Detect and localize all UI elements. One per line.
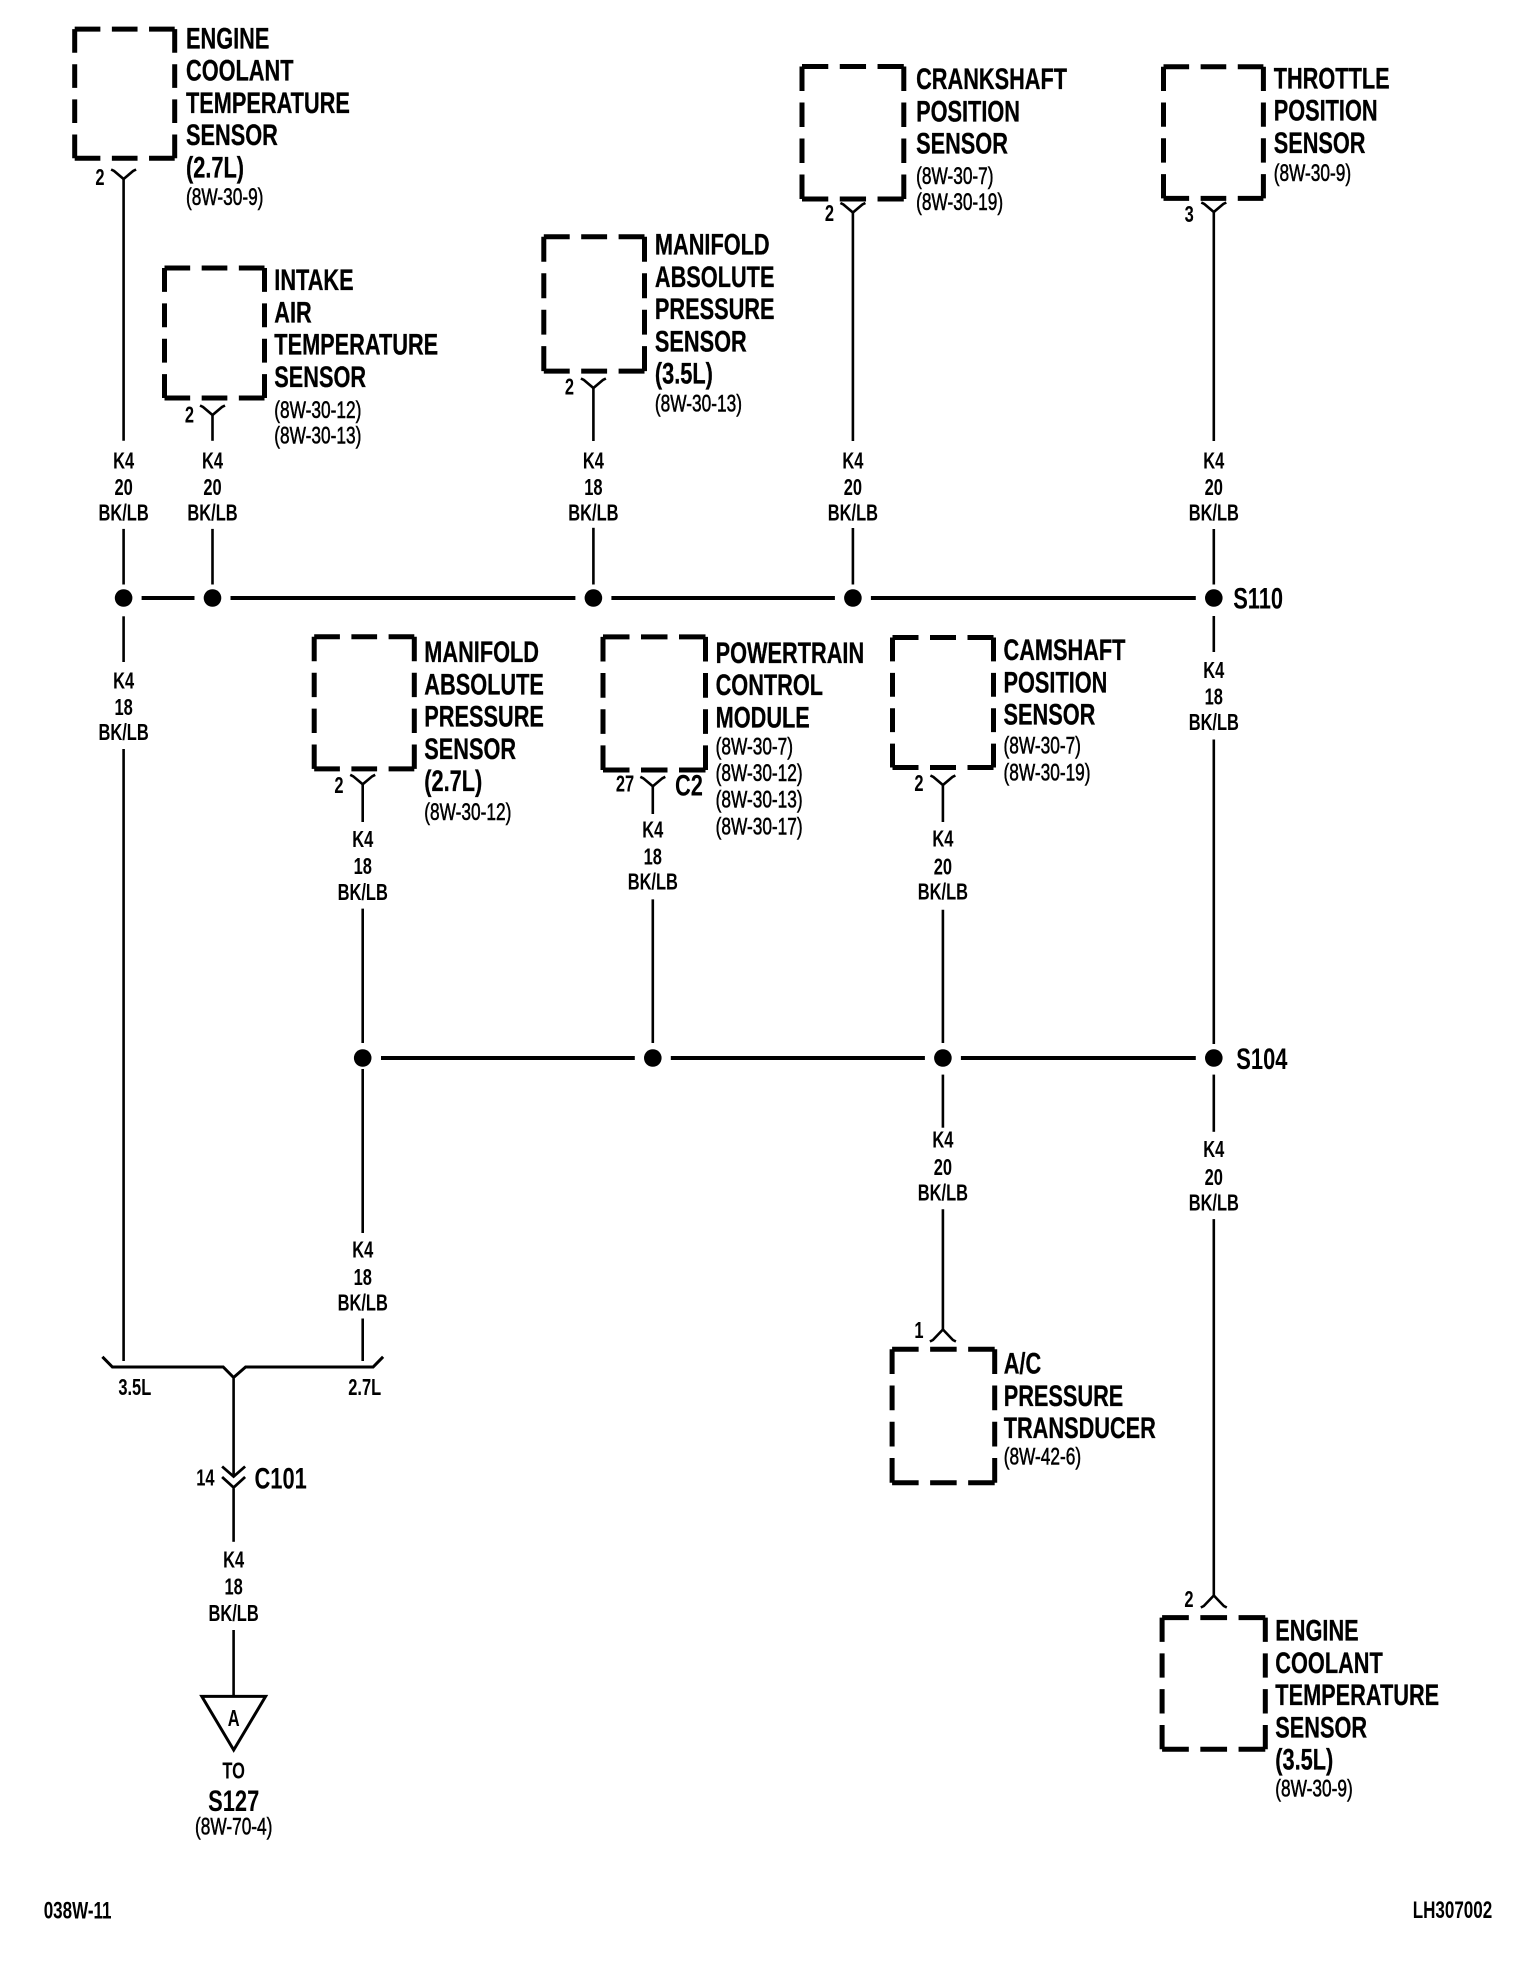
svg-text:18: 18 — [114, 695, 132, 720]
wire K4 18 BK/LB from MAP(3.5L) pin 2 down to splice S110 — [568, 388, 618, 585]
svg-text:PRESSURE: PRESSURE — [424, 699, 544, 733]
svg-text:K4: K4 — [1203, 449, 1225, 474]
svg-text:K4: K4 — [113, 449, 135, 474]
sensor box U10: ENGINE COOLANT TEMPERATURE SENSOR (3.5L) — [1162, 1613, 1439, 1802]
wire K4 20 BK/LB from TPS pin 3 down to splice S110 — [1189, 212, 1239, 585]
svg-text:COOLANT: COOLANT — [1275, 1645, 1382, 1679]
svg-text:SENSOR: SENSOR — [186, 118, 278, 152]
svg-text:K4: K4 — [113, 669, 135, 694]
svg-text:SENSOR: SENSOR — [274, 359, 366, 393]
svg-text:C2: C2 — [675, 768, 703, 802]
svg-text:3.5L: 3.5L — [118, 1375, 151, 1400]
junction dot S104/PCM wire — [644, 1049, 662, 1067]
svg-text:(8W-30-9): (8W-30-9) — [186, 185, 263, 211]
sensor box U2: INTAKE AIR TEMPERATURE SENSOR — [165, 263, 439, 450]
svg-text:BK/LB: BK/LB — [918, 1181, 968, 1206]
svg-text:POSITION: POSITION — [1004, 665, 1108, 699]
svg-text:18: 18 — [584, 475, 602, 500]
svg-text:LH307002: LH307002 — [1413, 1897, 1493, 1924]
node label S104 — [1236, 1042, 1287, 1076]
svg-text:TEMPERATURE: TEMPERATURE — [1275, 1678, 1439, 1712]
svg-text:SENSOR: SENSOR — [916, 126, 1008, 160]
svg-text:BK/LB: BK/LB — [98, 501, 148, 526]
svg-text:2: 2 — [914, 771, 923, 796]
svg-text:2: 2 — [185, 403, 194, 428]
svg-text:K4: K4 — [223, 1548, 245, 1573]
wire from brace apex down to connector C101 — [232, 1379, 235, 1475]
svg-text:BK/LB: BK/LB — [628, 870, 678, 895]
svg-text:C101: C101 — [255, 1461, 307, 1495]
wire K4 20 BK/LB from CMP pin 2 down to splice S104 — [918, 785, 968, 1043]
svg-text:(8W-30-12): (8W-30-12) — [424, 799, 511, 825]
svg-text:A: A — [228, 1706, 240, 1731]
svg-text:(8W-30-7): (8W-30-7) — [916, 163, 993, 189]
svg-text:SENSOR: SENSOR — [1274, 125, 1366, 159]
svg-text:BK/LB: BK/LB — [828, 501, 878, 526]
pin 27 connector C2 of PCM — [616, 768, 703, 802]
svg-text:(8W-30-12): (8W-30-12) — [716, 760, 803, 786]
pin 2 connector of ECT(3.5L) — [1184, 1587, 1226, 1612]
svg-text:27: 27 — [616, 772, 634, 797]
svg-text:SENSOR: SENSOR — [1275, 1710, 1367, 1744]
sensor box U5: THROTTLE POSITION SENSOR — [1164, 61, 1390, 199]
svg-text:S127: S127 — [208, 1784, 259, 1818]
svg-text:(8W-70-4): (8W-70-4) — [195, 1814, 272, 1840]
junction dot S104/MAP(2.7L) wire — [354, 1049, 372, 1067]
svg-text:AIR: AIR — [274, 295, 312, 329]
sensor box U3: MANIFOLD ABSOLUTE PRESSURE SENSOR (3.5L) — [544, 227, 775, 417]
svg-text:3: 3 — [1185, 202, 1194, 227]
svg-text:K4: K4 — [932, 1128, 954, 1153]
svg-text:SENSOR: SENSOR — [655, 324, 747, 358]
svg-text:TO: TO — [222, 1759, 245, 1784]
svg-text:MANIFOLD: MANIFOLD — [424, 635, 539, 669]
svg-text:ABSOLUTE: ABSOLUTE — [655, 259, 775, 293]
junction dot S104/CMP wire — [934, 1049, 952, 1067]
svg-text:20: 20 — [203, 475, 221, 500]
splice bus S110 (horizontal) — [142, 596, 1196, 600]
svg-text:K4: K4 — [352, 1238, 374, 1263]
svg-text:PRESSURE: PRESSURE — [1004, 1378, 1124, 1412]
node label S110 — [1233, 581, 1283, 615]
junction dot S110 right end — [1205, 589, 1223, 607]
svg-text:BK/LB: BK/LB — [338, 1291, 388, 1316]
svg-text:20: 20 — [114, 475, 132, 500]
svg-text:(8W-30-19): (8W-30-19) — [916, 189, 1003, 215]
svg-text:S110: S110 — [1233, 581, 1283, 615]
svg-text:BK/LB: BK/LB — [208, 1601, 258, 1626]
svg-text:(8W-30-9): (8W-30-9) — [1274, 160, 1351, 186]
svg-text:(8W-30-13): (8W-30-13) — [716, 787, 803, 813]
svg-text:COOLANT: COOLANT — [186, 53, 293, 87]
module box U7: POWERTRAIN CONTROL MODULE — [603, 635, 864, 840]
connector C101 pin 14 (inline double-chevron) — [196, 1461, 307, 1495]
svg-text:BK/LB: BK/LB — [1189, 1191, 1239, 1216]
svg-text:20: 20 — [1205, 475, 1223, 500]
sheet number 038W-11 — [44, 1898, 112, 1925]
svg-text:K4: K4 — [1203, 1138, 1225, 1163]
svg-text:POSITION: POSITION — [1274, 93, 1378, 127]
svg-text:18: 18 — [224, 1575, 242, 1600]
svg-text:TRANSDUCER: TRANSDUCER — [1004, 1411, 1156, 1445]
svg-text:18: 18 — [354, 1265, 372, 1290]
svg-text:CONTROL: CONTROL — [716, 668, 823, 702]
svg-text:SENSOR: SENSOR — [1004, 697, 1096, 731]
pin 2 connector of CMP — [914, 771, 955, 796]
wire K4 18 BK/LB from MAP(2.7L) pin 2 down to splice S104 — [338, 784, 388, 1043]
junction dot S104 right end — [1205, 1049, 1223, 1067]
svg-text:SENSOR: SENSOR — [424, 731, 516, 765]
wire K4 18 BK/LB from PCM pin 27 down to splice S104 — [628, 786, 678, 1043]
svg-text:20: 20 — [1205, 1165, 1223, 1190]
svg-text:INTAKE: INTAKE — [274, 263, 353, 297]
svg-text:14: 14 — [196, 1466, 215, 1491]
svg-text:MODULE: MODULE — [716, 700, 810, 734]
sensor box U8: CAMSHAFT POSITION SENSOR — [893, 633, 1126, 787]
svg-text:(8W-30-13): (8W-30-13) — [274, 423, 361, 449]
svg-text:BK/LB: BK/LB — [568, 501, 618, 526]
wire K4 18 BK/LB from splice S110 down right side to splice S104 — [1189, 616, 1239, 1044]
wire K4 18 BK/LB from MAP(2.7L) splice branch down to engine brace (2.7L branch) — [338, 1069, 388, 1361]
svg-text:TEMPERATURE: TEMPERATURE — [186, 85, 350, 119]
svg-text:(8W-30-17): (8W-30-17) — [716, 814, 803, 840]
svg-text:CAMSHAFT: CAMSHAFT — [1004, 633, 1126, 667]
svg-text:K4: K4 — [583, 449, 605, 474]
svg-text:A/C: A/C — [1004, 1346, 1042, 1380]
junction dot S110/IAT wire — [204, 589, 222, 607]
svg-text:2: 2 — [334, 774, 343, 799]
wire K4 20 BK/LB from ECT(2.7L) pin 2 down to splice S110 — [98, 179, 148, 585]
pin 2 connector of MAP(2.7L) — [334, 774, 375, 799]
svg-text:PRESSURE: PRESSURE — [655, 292, 775, 326]
svg-text:20: 20 — [934, 1155, 952, 1180]
svg-text:BK/LB: BK/LB — [98, 721, 148, 746]
pin 3 connector of TPS — [1185, 202, 1227, 227]
sensor box U1: ENGINE COOLANT TEMPERATURE SENSOR (2.7L) — [75, 21, 350, 211]
svg-text:BK/LB: BK/LB — [918, 880, 968, 905]
svg-text:POWERTRAIN: POWERTRAIN — [716, 635, 865, 669]
svg-text:2: 2 — [825, 202, 834, 227]
pin 1 connector of A/C pressure transducer — [914, 1318, 955, 1343]
svg-text:(3.5L): (3.5L) — [655, 356, 713, 390]
wire K4 20 BK/LB from CKP pin 2 down to splice S110 — [828, 213, 878, 585]
svg-text:2.7L: 2.7L — [348, 1375, 381, 1400]
svg-text:POSITION: POSITION — [916, 94, 1020, 128]
drawing number LH307002 — [1413, 1897, 1493, 1924]
svg-text:18: 18 — [644, 845, 662, 870]
pin 2 connector of ECT(2.7L) — [95, 166, 136, 191]
svg-text:K4: K4 — [842, 449, 864, 474]
wire K4 20 BK/LB from IAT pin 2 down to splice S110 — [187, 415, 237, 585]
off-page connector arrow A (to S127) — [202, 1696, 266, 1750]
svg-text:K4: K4 — [202, 449, 224, 474]
splice bus S104 (horizontal) — [381, 1056, 1196, 1060]
svg-text:2: 2 — [95, 166, 104, 191]
svg-text:18: 18 — [354, 855, 372, 880]
svg-text:CRANKSHAFT: CRANKSHAFT — [916, 62, 1067, 96]
svg-text:(2.7L): (2.7L) — [186, 150, 244, 184]
svg-text:20: 20 — [934, 855, 952, 880]
svg-text:MANIFOLD: MANIFOLD — [655, 227, 770, 261]
junction dot S110/CKP wire — [844, 589, 862, 607]
svg-text:(8W-30-13): (8W-30-13) — [655, 391, 742, 417]
svg-text:TEMPERATURE: TEMPERATURE — [274, 327, 438, 361]
junction dot S110/ECT wire — [115, 589, 133, 607]
svg-text:(8W-30-12): (8W-30-12) — [274, 397, 361, 423]
svg-text:BK/LB: BK/LB — [1189, 501, 1239, 526]
sensor box U4: CRANKSHAFT POSITION SENSOR — [802, 62, 1067, 216]
svg-text:THROTTLE: THROTTLE — [1274, 61, 1390, 95]
pin 2 connector of CKP — [825, 202, 866, 227]
pin 2 connector of MAP(3.5L) — [565, 375, 606, 400]
svg-text:20: 20 — [844, 475, 862, 500]
svg-text:(8W-30-7): (8W-30-7) — [1004, 733, 1081, 759]
value label 2.7L — [348, 1375, 381, 1400]
svg-text:(2.7L): (2.7L) — [424, 764, 482, 798]
svg-text:(3.5L): (3.5L) — [1275, 1742, 1333, 1776]
svg-text:BK/LB: BK/LB — [338, 880, 388, 905]
svg-text:(8W-42-6): (8W-42-6) — [1004, 1444, 1081, 1470]
svg-text:K4: K4 — [642, 818, 664, 843]
wire K4 20 BK/LB from splice S104 down to A/C pressure transducer pin 1 — [918, 1075, 968, 1330]
svg-text:K4: K4 — [1203, 658, 1225, 683]
value label 3.5L — [118, 1375, 151, 1400]
wire K4 18 BK/LB from C101 down to off-page arrow A — [208, 1489, 258, 1697]
destination label TO S127 (8W-70-4) — [195, 1759, 272, 1840]
svg-text:(8W-30-9): (8W-30-9) — [1275, 1776, 1352, 1802]
svg-text:K4: K4 — [932, 827, 954, 852]
wire K4 20 BK/LB from splice S104 down to ECT(3.5L) pin 2 — [1189, 1075, 1239, 1596]
svg-text:2: 2 — [1184, 1587, 1193, 1612]
pin 2 connector of IAT — [185, 403, 225, 428]
svg-text:ABSOLUTE: ABSOLUTE — [424, 667, 544, 701]
svg-text:ENGINE: ENGINE — [1275, 1613, 1358, 1647]
svg-text:2: 2 — [565, 375, 574, 400]
svg-text:K4: K4 — [352, 828, 374, 853]
svg-text:18: 18 — [1205, 685, 1223, 710]
junction dot S110/MAP(3.5L) wire — [585, 589, 603, 607]
svg-text:(8W-30-19): (8W-30-19) — [1004, 760, 1091, 786]
svg-text:BK/LB: BK/LB — [1189, 710, 1239, 735]
svg-text:BK/LB: BK/LB — [187, 501, 237, 526]
svg-text:(8W-30-7): (8W-30-7) — [716, 734, 793, 760]
svg-text:1: 1 — [914, 1318, 923, 1343]
sensor box U9: A/C PRESSURE TRANSDUCER — [892, 1346, 1156, 1483]
sensor box U6: MANIFOLD ABSOLUTE PRESSURE SENSOR (2.7L) — [314, 635, 544, 826]
wire K4 18 BK/LB from splice S110 down-left to engine brace (3.5L branch) — [98, 616, 148, 1361]
svg-text:ENGINE: ENGINE — [186, 21, 269, 55]
svg-text:038W-11: 038W-11 — [44, 1898, 112, 1925]
engine-variant merge brace joining 3.5L and 2.7L branches — [102, 1357, 383, 1378]
svg-text:S104: S104 — [1236, 1042, 1287, 1076]
